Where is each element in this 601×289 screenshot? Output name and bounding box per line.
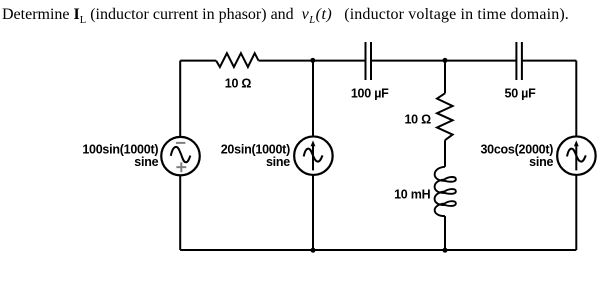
wire right branch lower (I2 to bottom-right corner) (575, 175, 577, 250)
resistor R2 10Ω (vertical zigzag) (437, 93, 453, 140)
inductor L1 10mH coil (435, 167, 456, 216)
svg-text:10 Ω: 10 Ω (225, 77, 252, 91)
node A junction dot (top, x=313) (310, 58, 315, 63)
wire from C1 to node B (371, 60, 445, 62)
label 10 Ω (R1) (225, 77, 252, 91)
I2 sine wave (567, 149, 586, 162)
label 10 mH (L1) (394, 187, 430, 201)
label 100sin(1000t) sine (V1) (82, 142, 158, 169)
resistor R1 10Ω (top horizontal zigzag) (216, 53, 258, 67)
wire bottom rail (180, 249, 576, 251)
node B junction dot (top, x=445) (443, 58, 448, 63)
V1 minus sign (top, gray) (176, 142, 186, 144)
wire left branch upper (corner down to source V1) (179, 61, 181, 137)
wire branch 3 upper (node B down to resistor R2) (444, 61, 446, 94)
node D junction dot (bottom, x=445) (443, 248, 448, 253)
wire from R1 to node A (259, 60, 314, 62)
wire branch 2 lower (I1 to bottom node C) (312, 175, 314, 250)
capacitor C1 100µF plates (366, 42, 372, 80)
label 20sin(1000t) sine (I1) (221, 142, 291, 169)
svg-text:sine: sine (266, 155, 290, 169)
I1 sine wave (304, 149, 323, 162)
capacitor C2 50µF plates (516, 42, 522, 80)
svg-text:sine: sine (134, 155, 158, 169)
label 10 Ω (R2) (404, 112, 431, 126)
wire from node B to capacitor C2 (445, 60, 516, 62)
svg-text:50 µF: 50 µF (505, 86, 537, 100)
current source I1 20sin(1000t) circle (294, 136, 333, 175)
label 30cos(2000t) sine (I2) (480, 142, 553, 169)
wire branch 2 upper (node A down to source I1) (312, 61, 314, 137)
svg-text:100 µF: 100 µF (351, 86, 389, 100)
label 100 µF (C1) (351, 86, 389, 100)
label 50 µF (C2) (505, 86, 537, 100)
title text (2, 6, 569, 26)
voltage source V1 100sin(1000t) circle (161, 137, 200, 176)
current source I2 30cos(2000t) circle (557, 136, 596, 175)
wire right branch upper (top-right corner to source I2) (575, 61, 577, 137)
svg-text:10 mH: 10 mH (394, 187, 430, 201)
wire top-left: corner to resistor R1 (180, 60, 216, 62)
node C junction dot (bottom, x=313) (311, 248, 316, 253)
wire R2 to inductor L1 (444, 140, 446, 167)
I2 arrow (up) (574, 140, 579, 170)
wire from C2 to top-right corner (522, 60, 576, 62)
wire L1 to bottom node D (444, 216, 446, 250)
wire from node A to capacitor C1 (313, 60, 366, 62)
I1 arrow (up) (311, 140, 316, 170)
svg-text:10 Ω: 10 Ω (404, 112, 431, 126)
V1 plus sign (bottom, gray) (176, 162, 186, 172)
svg-text:sine: sine (529, 155, 553, 169)
wire left branch lower (V1 to bottom-left corner) (179, 175, 181, 250)
V1 sine wave (171, 147, 191, 162)
